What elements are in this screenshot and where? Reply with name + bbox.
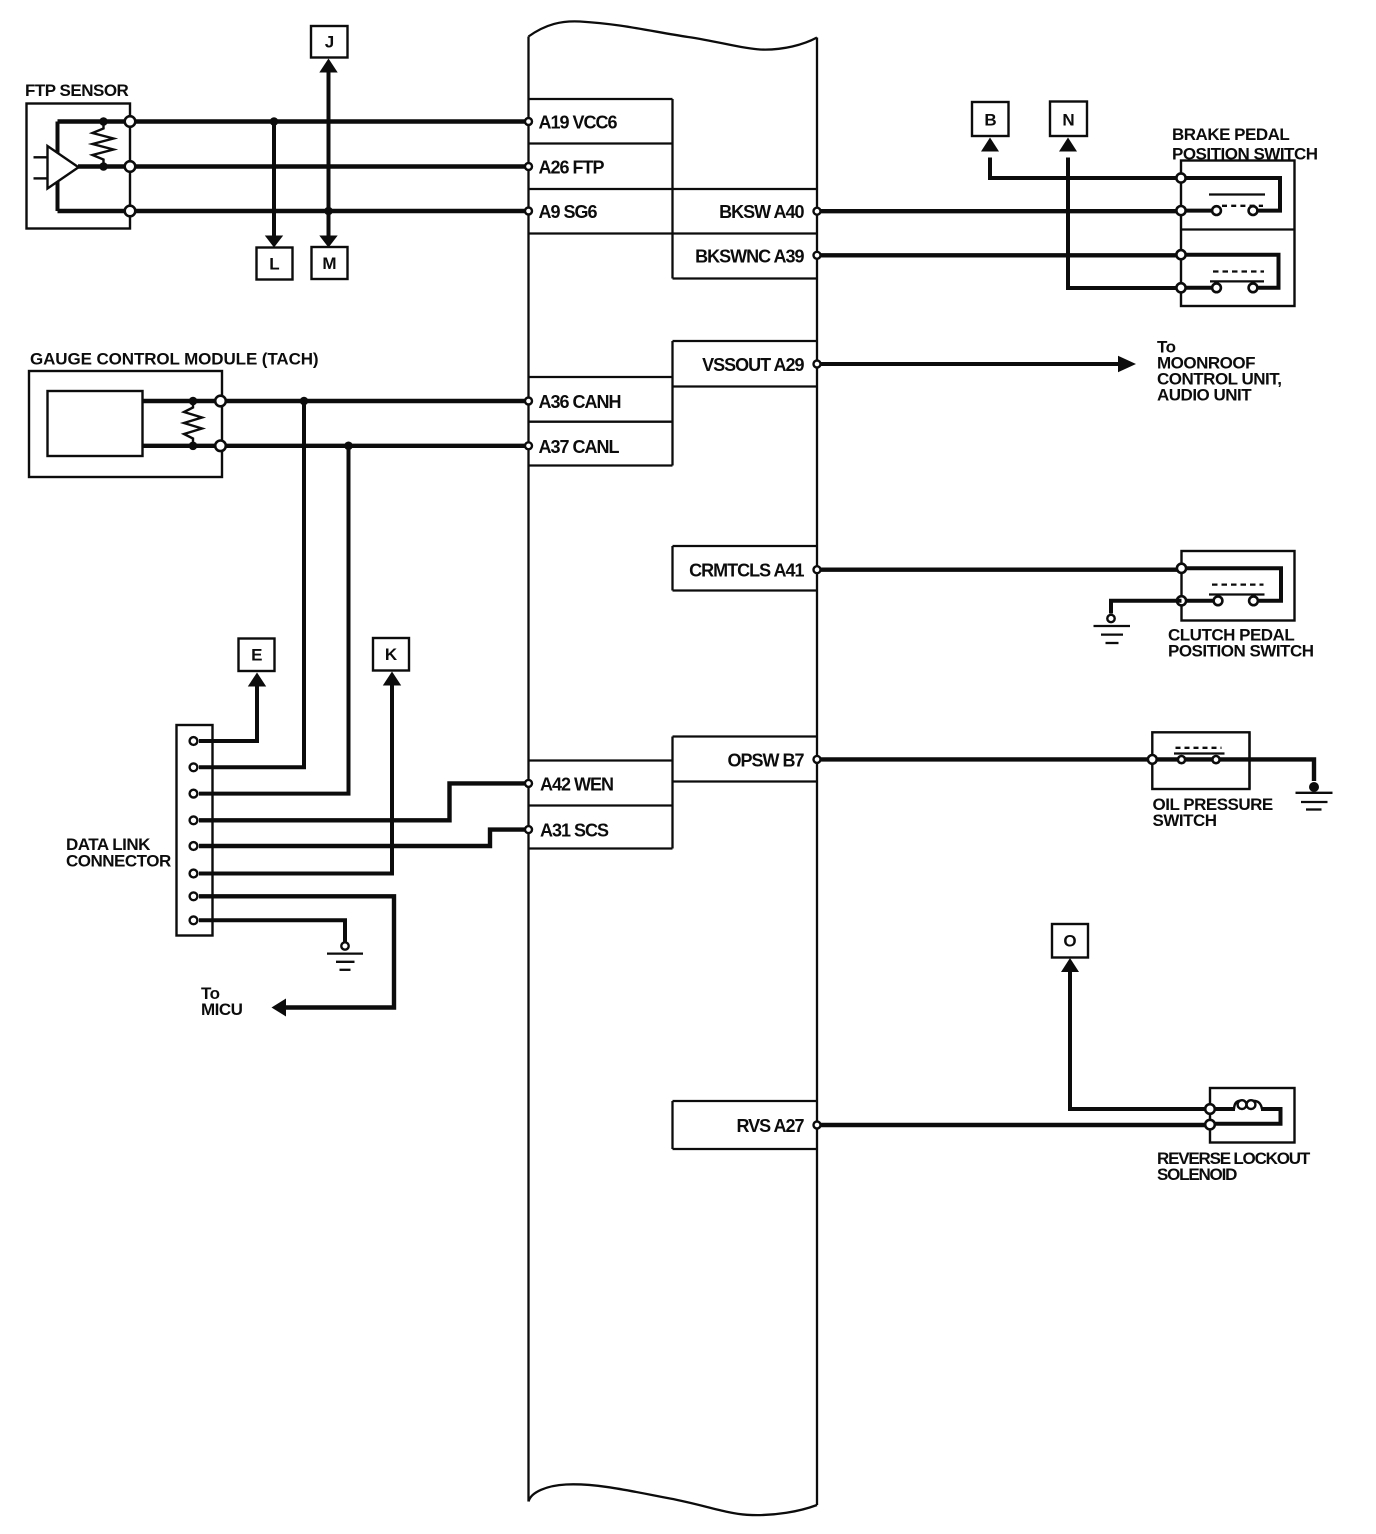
module pin terminal A36 <box>525 398 532 405</box>
oil pressure switch S3 <box>1148 732 1250 789</box>
module pin terminal A9 <box>525 208 532 215</box>
DLC pin 5 <box>190 842 198 850</box>
svg-text:K: K <box>385 645 398 664</box>
svg-text:CRMTCLS A41: CRMTCLS A41 <box>689 561 804 581</box>
wire brake switch to connector B <box>990 158 1181 179</box>
svg-text:A26 FTP: A26 FTP <box>539 158 605 178</box>
svg-text:A37 CANL: A37 CANL <box>539 437 620 457</box>
reverse lockout solenoid L1 <box>1205 1088 1294 1143</box>
wire brake switch to connector N <box>1068 158 1181 289</box>
svg-text:A19 VCC6: A19 VCC6 <box>539 113 618 133</box>
gauge control module (tach) <box>29 371 222 477</box>
svg-text:E: E <box>251 646 262 665</box>
arrowhead into J <box>319 59 337 73</box>
pin box A19/A26/A9 rows (left) <box>529 99 818 279</box>
pin box A42/A31 rows <box>529 761 673 849</box>
wire FTP sensor internal loop <box>56 122 60 212</box>
gauge module terminal pins <box>215 396 226 451</box>
arrowhead into K <box>383 672 401 686</box>
svg-text:J: J <box>325 33 334 52</box>
DLC pin 6 <box>190 870 198 878</box>
svg-text:BKSW A40: BKSW A40 <box>719 202 804 222</box>
arrowhead into L <box>265 236 283 248</box>
svg-text:A42 WEN: A42 WEN <box>540 774 613 794</box>
svg-text:OPSW B7: OPSW B7 <box>727 750 804 770</box>
wire CRMTCLS A41 to clutch switch <box>817 568 1182 572</box>
module pin terminal A19 <box>525 118 532 125</box>
clutch pedal position switch S2 <box>1177 551 1295 621</box>
arrowhead into N <box>1059 138 1077 152</box>
svg-text:B: B <box>984 111 996 130</box>
pin box VSSOUT A29 <box>673 341 818 387</box>
module pin terminal A39 <box>814 252 821 259</box>
brake pedal position switch S1 <box>1176 161 1294 307</box>
connector O box <box>1052 924 1088 958</box>
wire DLC pin1 to connector E <box>199 686 257 741</box>
arrowhead into B <box>981 138 999 152</box>
DLC pin 3 <box>190 790 198 798</box>
node: tap on CANL wire <box>344 442 353 451</box>
FTP sensor U1 <box>27 104 136 229</box>
wire DLC pin5 to A31 SCS <box>199 830 529 846</box>
svg-text:A31 SCS: A31 SCS <box>540 821 609 841</box>
svg-text:A9 SG6: A9 SG6 <box>539 202 598 222</box>
arrowhead into M <box>319 236 337 248</box>
wire RVS A27 to solenoid <box>817 1123 1210 1127</box>
wire BKSW A40 to brake switch <box>817 209 1181 213</box>
svg-text:VSSOUT A29: VSSOUT A29 <box>702 355 804 375</box>
pin box CRMTCLS A41 <box>673 546 818 591</box>
connector M box <box>312 247 348 279</box>
connector K box <box>373 638 409 671</box>
wire to connector L <box>272 122 276 237</box>
wire A37 CANL <box>143 444 529 448</box>
wire DLC pin7 to MICU <box>199 896 394 1007</box>
wire connector J to M <box>327 72 331 237</box>
svg-text:N: N <box>1062 111 1074 130</box>
svg-text:BKSWNC A39: BKSWNC A39 <box>695 246 804 266</box>
wire DLC pin4 to A42 WEN <box>199 783 529 820</box>
wire clutch switch to ground <box>1111 601 1182 614</box>
wire DLC pin2 to CANH <box>199 401 304 767</box>
wire DLC pin6 to connector K <box>199 686 392 874</box>
connector B box <box>972 102 1009 136</box>
op-amp buffer (FTP sensor element) <box>34 146 79 189</box>
arrowhead to moonroof/audio <box>1118 356 1136 373</box>
wire A26 FTP <box>78 164 529 168</box>
DLC pin 1 <box>190 737 198 745</box>
resistor R1 (FTP pull-up) <box>93 117 114 171</box>
module pin terminal A41 <box>814 566 821 573</box>
ground G2 (clutch switch) <box>1094 615 1131 643</box>
module pin terminal A31 <box>525 826 532 833</box>
ground G1 (DLC) <box>327 942 363 970</box>
svg-text:GAUGE CONTROL MODULE (TACH): GAUGE CONTROL MODULE (TACH) <box>30 350 318 369</box>
arrowhead into O <box>1061 958 1079 972</box>
module pin terminal B7 <box>814 756 821 763</box>
svg-text:FTP SENSOR: FTP SENSOR <box>25 81 129 100</box>
connector J box <box>311 26 348 58</box>
DLC pin 8 <box>190 916 198 924</box>
pin box A36/A37 rows <box>529 341 673 466</box>
DLC pin 7 <box>190 892 198 900</box>
DLC pin 2 <box>190 763 198 771</box>
svg-text:A36 CANH: A36 CANH <box>539 392 621 412</box>
data link connector <box>177 725 213 936</box>
connector N box <box>1050 102 1087 137</box>
wire BKSWNC A39 to brake switch <box>817 253 1181 257</box>
wire A9 SG6 <box>58 209 529 213</box>
svg-text:O: O <box>1063 932 1076 951</box>
svg-text:M: M <box>322 254 336 273</box>
wire connector O to solenoid <box>1070 972 1210 1110</box>
module pin terminal A26 <box>525 163 532 170</box>
wire OPSW B7 to oil pressure switch and ground <box>817 759 1314 781</box>
node: tap on A9 wire for J/M <box>324 207 333 216</box>
connector L box <box>257 248 293 280</box>
arrowhead to MICU <box>272 999 287 1017</box>
svg-text:RVS A27: RVS A27 <box>736 1116 804 1136</box>
FTP terminal pins <box>125 116 136 127</box>
wire A36 CANH <box>143 399 529 403</box>
wire DLC pin8 to ground <box>199 920 345 941</box>
DLC pin 4 <box>190 816 198 824</box>
pin box OPSW B7 <box>673 737 818 849</box>
node: tap on A19 wire for L <box>270 117 279 126</box>
wire DLC pin3 to CANL <box>199 446 349 794</box>
connector E box <box>239 639 275 672</box>
ground G3 (oil pressure switch) <box>1296 782 1333 810</box>
pin box RVS A27 <box>673 1101 818 1149</box>
module pin terminal A29 <box>814 361 821 368</box>
arrowhead into E <box>248 673 266 687</box>
module pin terminal A37 <box>525 442 532 449</box>
resistor R2 (CAN termination) <box>184 397 202 450</box>
pin box BKSWNC A39 row (right) <box>673 277 818 279</box>
wire A19 VCC6 <box>58 119 529 123</box>
svg-text:CLUTCH PEDALPOSITION SWITCH: CLUTCH PEDALPOSITION SWITCH <box>1168 626 1314 661</box>
module pin terminal A40 <box>814 208 821 215</box>
node: tap on CANH wire <box>300 397 309 406</box>
module pin terminal A42 <box>525 780 532 787</box>
module pin terminal A27 <box>814 1122 821 1129</box>
wire VSSOUT A29 to moonroof/audio <box>817 362 1119 366</box>
svg-text:L: L <box>269 255 279 274</box>
module ECM/PCM body (torn-edge outline) <box>529 21 818 1515</box>
